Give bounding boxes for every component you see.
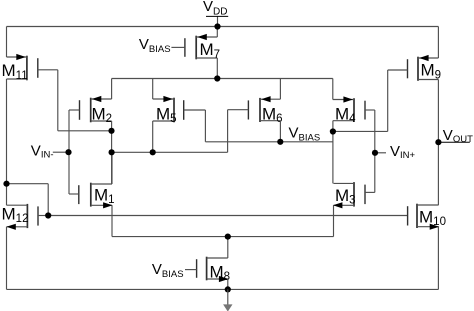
wire right rail lower (M10 source to ground rail)	[437, 227, 439, 290]
svg-text:VBIAS: VBIAS	[139, 36, 171, 55]
svg-text:M4: M4	[335, 104, 356, 125]
transistor M3 (NMOS input pair right)	[333, 182, 365, 208]
wire M5 gate vertical	[204, 110, 206, 142]
V_OUT underline	[438, 141, 469, 143]
wire inner source rail (M7 drain node)	[112, 78, 333, 80]
node M7 drain / inner rail junction	[214, 75, 220, 81]
wire M2 gate lead	[69, 109, 80, 111]
wire M9 gate to right drain node	[333, 130, 388, 132]
wire V_BIAS to M8 gate	[185, 269, 197, 271]
wire left drain node to M6 gate	[112, 151, 228, 153]
node V_IN-	[65, 149, 71, 155]
wire M11 gate lead	[38, 69, 58, 71]
node left drain wire junction	[109, 149, 115, 155]
wire M11 gate to left drain node	[58, 130, 112, 132]
wire M2 drain chain down to M1 drain	[111, 121, 113, 184]
wire M11/M12 drain node branch	[7, 183, 49, 185]
wire M2 source to inner rail	[111, 79, 113, 100]
wire M3 source down to tail	[333, 205, 335, 236]
svg-text:M12: M12	[2, 204, 29, 225]
svg-text:VIN-: VIN-	[31, 142, 54, 160]
transistor M7 (PMOS bias current source)	[185, 34, 220, 61]
wire M6 source to inner rail	[279, 79, 281, 100]
transistor M9 (PMOS output right)	[408, 55, 442, 81]
svg-text:M10: M10	[419, 207, 446, 228]
wire M6 gate vertical	[227, 110, 229, 153]
svg-text:M2: M2	[92, 104, 113, 125]
wire M7 source to VDD	[216, 27, 218, 38]
V_DD underline	[206, 15, 228, 17]
svg-text:M8: M8	[210, 262, 231, 283]
wire left rail upper (VDD to M11 source)	[6, 27, 8, 58]
transistor M11 (PMOS output left)	[2, 54, 38, 82]
wire M12 gate lead	[38, 215, 48, 217]
wire M3 gate lead	[365, 191, 375, 193]
wire M8 drain up to tail wire	[227, 237, 229, 258]
wire M4 gate to V_IN+ node	[374, 110, 376, 153]
wire M2 gate to V_IN- node	[68, 110, 70, 152]
wire M7 drain to inner rail	[216, 58, 218, 79]
node V_IN+	[372, 150, 378, 156]
node V_DD junction	[214, 23, 220, 29]
svg-text:VBIAS: VBIAS	[152, 261, 184, 280]
wire M4 drain chain down to M3 drain	[332, 121, 334, 184]
transistor M1 (NMOS input pair left)	[79, 183, 115, 209]
wire V_BIAS to M7 gate	[171, 46, 185, 48]
wire M4 gate lead	[365, 109, 375, 111]
node M8 source / ground rail junction	[225, 286, 231, 292]
wire M5 source to inner rail	[152, 79, 154, 100]
wire tail (M1/M3 sources to M8 drain)	[112, 236, 334, 238]
wire V_IN- lead	[53, 151, 69, 153]
wire right rail upper (VDD to M9 source)	[437, 27, 439, 59]
node right drain / M9 gate junction	[330, 128, 336, 134]
wire M1 gate to V_IN- node	[68, 152, 70, 194]
transistor M6 (PMOS cross-coupled right)	[248, 96, 282, 125]
ground symbol	[223, 304, 232, 311]
wire V_DD lead	[217, 16, 219, 26]
wire ground stem	[227, 289, 229, 306]
wire V_IN+ lead	[375, 152, 386, 154]
wire ground rail	[7, 288, 439, 290]
node V_BIAS / M6 drain junction	[277, 139, 283, 145]
svg-text:M3: M3	[335, 186, 356, 207]
wire M6 drain down to V_BIAS node	[279, 121, 281, 142]
transistor M10 (NMOS output right)	[408, 204, 446, 230]
svg-text:VIN+: VIN+	[390, 143, 416, 161]
svg-text:VDD: VDD	[203, 0, 227, 17]
wire left rail lower (M12 source to ground rail)	[6, 227, 8, 290]
wire M11 gate vertical	[57, 70, 59, 131]
wire M5 gate lead	[184, 109, 206, 111]
wire M5 gate / V_BIAS node wire to right drain chain	[205, 141, 333, 143]
wire branch down to gate wire	[47, 184, 49, 216]
transistor M4 (PMOS input pair right)	[333, 96, 365, 125]
svg-text:M11: M11	[2, 61, 28, 82]
wire M4 source to inner rail	[332, 79, 334, 100]
transistor M12 (NMOS output left, diode-connected)	[2, 204, 39, 230]
node left drain / M11 gate junction	[108, 128, 114, 134]
transistor M2 (PMOS input pair left)	[80, 96, 113, 125]
svg-text:M9: M9	[421, 61, 442, 82]
svg-text:M7: M7	[200, 40, 221, 61]
node V_OUT	[435, 139, 441, 145]
wire M1 drain up to left drain node	[111, 152, 113, 184]
transistor M8 (NMOS tail current source)	[197, 257, 230, 283]
wire M5 drain down to left drain wire	[152, 121, 154, 152]
node tail / M8 drain junction	[225, 234, 231, 240]
node M5 drain junction	[150, 149, 156, 155]
node M12 gate junction	[45, 212, 51, 218]
wire M1 source down to tail	[111, 205, 113, 236]
svg-text:M1: M1	[94, 185, 115, 206]
wire M8 source to ground rail	[227, 279, 229, 289]
wire left rail middle (M11 drain to M12 drain)	[6, 79, 8, 205]
wire M6 gate lead	[228, 109, 249, 111]
svg-text:VBIAS: VBIAS	[289, 125, 321, 144]
wire right rail middle (M9 drain / V_OUT / M10 drain)	[437, 80, 439, 206]
svg-text:M6: M6	[262, 104, 283, 125]
wire M1 gate lead	[69, 193, 79, 195]
wire long gate wire M12 gate to M10 gate	[48, 215, 407, 217]
wire M3 gate to V_IN+ node	[374, 153, 376, 193]
node M11/M12 drain junction	[3, 181, 9, 187]
wire V_DD rail	[7, 26, 439, 28]
wire M9 gate vertical	[387, 70, 389, 131]
transistor M5 (PMOS cross-coupled left)	[153, 96, 184, 125]
wire M9 gate lead	[388, 69, 408, 71]
